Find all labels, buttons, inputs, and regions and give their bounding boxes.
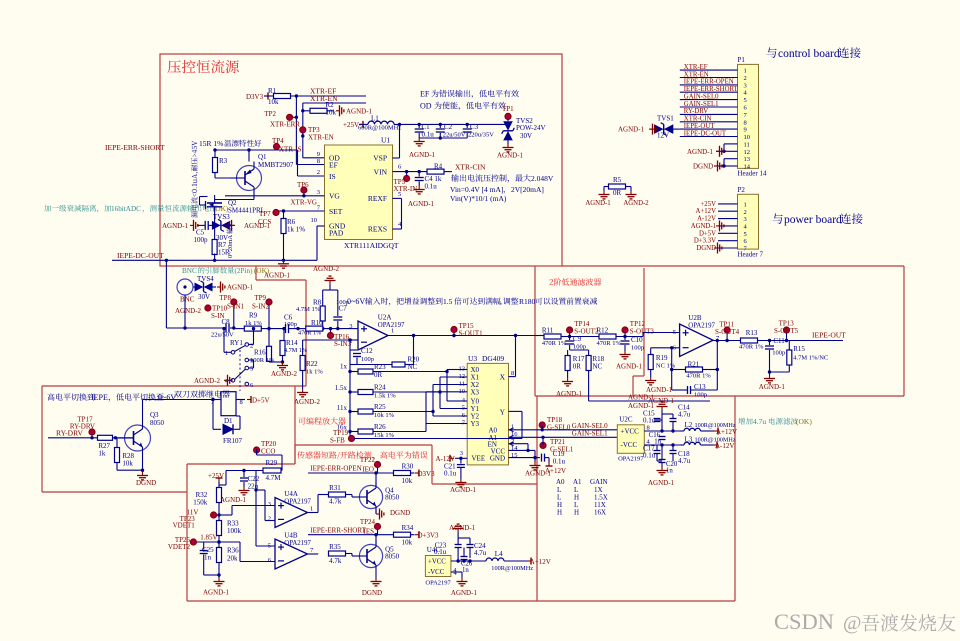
svg-text:NC: NC <box>593 363 603 371</box>
connector BNC <box>177 279 195 328</box>
test point TP16 S-IN3 <box>327 329 351 348</box>
wire U2A minus input <box>303 338 358 355</box>
svg-text:PAD: PAD <box>329 229 344 238</box>
svg-text:3: 3 <box>250 358 253 365</box>
note with control board <box>767 47 861 60</box>
svg-text:10k: 10k <box>326 109 337 117</box>
svg-text:Y: Y <box>500 408 506 417</box>
svg-text:1n: 1n <box>204 554 212 562</box>
test point TP18 G-SEL0 <box>539 416 571 432</box>
capacitor C5 <box>194 221 215 244</box>
svg-text:10k: 10k <box>122 460 133 468</box>
svg-text:DGND: DGND <box>362 589 382 597</box>
svg-text:X3: X3 <box>471 388 480 396</box>
wire U4B inputs <box>217 540 275 561</box>
svg-text:RY-DRV: RY-DRV <box>684 108 708 115</box>
svg-text:3: 3 <box>460 450 463 457</box>
svg-text:DGND: DGND <box>693 163 713 171</box>
svg-text:0.1u: 0.1u <box>643 417 656 425</box>
svg-text:1k 1%: 1k 1% <box>306 369 323 376</box>
svg-text:470R 1%: 470R 1% <box>686 373 711 380</box>
wire net XTR-EN to P1 pin 2 <box>680 71 738 78</box>
svg-text:R19: R19 <box>656 354 668 362</box>
wire net IEPE-DC-OUT to P1 pin 10 <box>680 130 738 137</box>
power ground AGND-1 above U4C caps <box>449 524 476 532</box>
capacitor C17 <box>643 445 661 462</box>
svg-text:A+12V: A+12V <box>530 558 551 566</box>
wire cap commons <box>419 136 467 139</box>
wire Q4 collector IEPE-ERR-OPEN <box>308 465 394 486</box>
wire U2B plus input <box>643 333 680 337</box>
svg-text:AGND-2: AGND-2 <box>175 307 202 315</box>
svg-text:VEE: VEE <box>472 454 486 462</box>
svg-text:10k 1%: 10k 1% <box>374 412 395 419</box>
inductor L4 <box>486 550 551 572</box>
svg-text:A+12V: A+12V <box>716 428 737 436</box>
capacitor C3 <box>463 123 495 139</box>
svg-text:0R: 0R <box>573 363 582 371</box>
svg-text:TP2: TP2 <box>264 110 276 118</box>
svg-text:9: 9 <box>317 151 320 158</box>
svg-text:8050: 8050 <box>385 494 400 502</box>
svg-text:GAIN-SEL1: GAIN-SEL1 <box>684 101 719 108</box>
svg-text:12V: 12V <box>657 132 669 140</box>
note double pole relay <box>174 390 230 397</box>
watermark handle <box>843 612 956 634</box>
svg-text:R23: R23 <box>374 363 386 371</box>
svg-text:100p: 100p <box>284 321 297 328</box>
svg-text:R24: R24 <box>374 384 386 392</box>
region box: 2nd-order low pass filter <box>535 266 904 396</box>
wire A0 GAIN-SEL0 <box>509 422 621 431</box>
svg-text:XTR-IN: XTR-IN <box>394 185 418 193</box>
svg-text:16X: 16X <box>594 509 606 517</box>
wire U4C minus rail <box>451 572 462 578</box>
svg-text:12: 12 <box>744 149 751 156</box>
svg-text:VDET1: VDET1 <box>173 522 196 530</box>
inductor L3 <box>680 436 736 451</box>
wire XTR-EF <box>291 87 367 98</box>
svg-text:IEPE-OUT: IEPE-OUT <box>684 123 715 130</box>
wire Q5 collector IEPE-ERR-SHORT <box>308 526 394 544</box>
svg-text:8050: 8050 <box>385 553 400 561</box>
svg-text:10k: 10k <box>268 98 279 106</box>
svg-text:RY1: RY1 <box>230 339 243 347</box>
svg-text:3: 3 <box>268 501 271 508</box>
wire CCO R29 net <box>257 449 282 471</box>
svg-text:20k: 20k <box>227 555 238 563</box>
test point TP23 VDET1 <box>173 509 221 530</box>
wire OD vertical <box>301 103 324 158</box>
wire Q3 collector to coil <box>143 399 214 401</box>
svg-text:A1: A1 <box>573 478 582 486</box>
resistor R29 <box>226 459 281 482</box>
svg-text:OD: OD <box>420 102 432 111</box>
svg-text:R1: R1 <box>268 87 277 95</box>
svg-text:R3: R3 <box>219 157 228 165</box>
svg-text:AGND-1: AGND-1 <box>585 200 610 207</box>
note 0-20mA vertical <box>226 222 234 258</box>
power ground AGND-1 under R17 <box>556 378 583 398</box>
svg-text:XTR-VG: XTR-VG <box>291 199 317 207</box>
svg-text:S-IN2: S-IN2 <box>252 303 270 311</box>
svg-text:DGND: DGND <box>696 245 716 252</box>
capacitor C19 <box>542 450 567 475</box>
svg-text:OPA2197: OPA2197 <box>425 580 451 587</box>
power ground AGND-2 at BNC <box>175 307 202 315</box>
svg-text:10: 10 <box>311 217 318 224</box>
svg-text:R4: R4 <box>434 163 443 171</box>
capacitor C24 <box>458 538 487 558</box>
svg-text:AGND-1: AGND-1 <box>646 386 673 394</box>
svg-text:XTR-EF: XTR-EF <box>684 64 708 71</box>
power ground AGND-1 at C19 <box>525 458 552 478</box>
svg-text:R21: R21 <box>688 361 700 369</box>
svg-text:0R: 0R <box>374 371 383 379</box>
svg-text:16bitADC: 16bitADC <box>111 205 141 213</box>
svg-text:REXF: REXF <box>368 194 387 203</box>
power ground AGND-1 at R2 <box>336 105 373 116</box>
svg-text:15R 1%: 15R 1% <box>199 139 223 148</box>
test point TP12 S-OUT3 <box>622 320 655 338</box>
resistor R2 <box>303 101 337 117</box>
wire IEPE-DC-OUT <box>112 251 317 262</box>
svg-text:AGND-1: AGND-1 <box>525 470 552 478</box>
resistor R14 <box>280 327 307 364</box>
capacitor C10 <box>621 336 645 352</box>
svg-text:R13: R13 <box>746 329 758 337</box>
power ground AGND-1 under C10 <box>616 351 643 371</box>
svg-text:C12: C12 <box>361 347 373 355</box>
connector P1 Header 14 <box>738 56 767 178</box>
svg-text:AGND-1: AGND-1 <box>759 383 786 391</box>
svg-text:C8: C8 <box>222 318 231 326</box>
wire net GAIN-SEL1 to P1 pin 6 <box>680 101 738 108</box>
mosfet Q2 SM4441PRL <box>200 195 265 221</box>
svg-text:U4A: U4A <box>284 490 298 498</box>
svg-text:U2A: U2A <box>378 314 392 322</box>
resistor R36 <box>204 542 239 577</box>
resistor R20 <box>357 356 420 372</box>
note temperature 15R <box>199 139 261 148</box>
capacitor C14 <box>662 404 691 432</box>
svg-text:R22: R22 <box>306 360 318 368</box>
capacitor C9 <box>565 335 586 351</box>
svg-text:100p: 100p <box>772 350 785 357</box>
svg-text:14: 14 <box>511 445 518 452</box>
svg-text:R26: R26 <box>374 423 386 431</box>
capacitor C11 <box>765 337 785 372</box>
power ground AGND-1 under U2C caps <box>648 467 675 487</box>
svg-text:AGND-1: AGND-1 <box>687 148 714 156</box>
svg-text:AGND-1: AGND-1 <box>227 284 254 292</box>
svg-text:C3: C3 <box>470 123 479 131</box>
svg-text:150k: 150k <box>193 499 208 507</box>
signal ground under R6 <box>278 260 289 268</box>
svg-text:TP22: TP22 <box>360 456 376 464</box>
svg-text:TP9: TP9 <box>254 294 266 302</box>
svg-text:H: H <box>557 509 562 517</box>
power ground AGND-1 at P2 pin4 <box>716 220 724 231</box>
svg-text:A0: A0 <box>556 478 565 486</box>
resistor R21 <box>672 339 719 390</box>
svg-text:470R 1%: 470R 1% <box>739 344 764 351</box>
resistor R4 <box>393 162 486 174</box>
note high level switch <box>47 393 176 402</box>
svg-text:1: 1 <box>310 506 313 513</box>
svg-text:S-FB: S-FB <box>330 437 345 445</box>
ic U2C OPA2197 power <box>617 416 650 463</box>
svg-text:R9: R9 <box>249 312 258 320</box>
power ground AGND-1 under C1-C3 <box>409 138 436 159</box>
svg-text:0.1u: 0.1u <box>444 470 457 478</box>
power ground DGND under Q5 <box>362 572 382 598</box>
wire U3 X output <box>509 336 516 377</box>
region divider lines (middle horizontal) <box>256 266 904 386</box>
test point TP24 IES <box>360 518 381 536</box>
wire net XTR-CIN to P1 pin 8 <box>680 116 738 123</box>
svg-text:DG409: DG409 <box>482 354 504 363</box>
wire P1 pins 11-12 to AGND-1 <box>716 144 738 153</box>
svg-text:L1: L1 <box>371 115 379 123</box>
svg-text:AGND-1: AGND-1 <box>556 390 583 398</box>
wire CCO to comparators <box>254 470 257 546</box>
svg-text:AGND-1: AGND-1 <box>616 363 643 371</box>
capacitor C1 <box>415 123 435 139</box>
svg-text:1.85V: 1.85V <box>200 534 217 542</box>
svg-text:BNC: BNC <box>182 267 197 275</box>
resistor R32 <box>193 488 221 516</box>
svg-text:0.1u: 0.1u <box>425 183 438 191</box>
svg-text:CCO: CCO <box>261 448 275 456</box>
svg-text:MMBT2907: MMBT2907 <box>258 161 294 169</box>
svg-text:2V[20mA]: 2V[20mA] <box>511 185 544 194</box>
svg-text:2: 2 <box>268 516 271 523</box>
power ground AGND-1 under C21 <box>450 479 477 494</box>
resistor R35 <box>308 543 355 565</box>
svg-text:2: 2 <box>317 169 320 176</box>
note attenuation isolation ADC <box>44 205 229 213</box>
resistor R30 <box>394 463 436 486</box>
svg-text:U2B: U2B <box>688 314 702 322</box>
ic U1 XTR111AIDGQT <box>311 136 403 251</box>
svg-text:0R: 0R <box>613 189 622 197</box>
svg-text:IEPE-DC-OUT: IEPE-DC-OUT <box>117 251 164 260</box>
svg-text:FR107: FR107 <box>223 437 243 445</box>
svg-text:NC 1%: NC 1% <box>656 363 676 370</box>
svg-text:AGND-2: AGND-2 <box>294 398 321 406</box>
svg-text:Vin(V)*10/1 (mA): Vin(V)*10/1 (mA) <box>450 194 507 203</box>
svg-text:2: 2 <box>250 343 253 350</box>
note BNC pin count <box>182 267 270 275</box>
resistor R22 <box>300 340 323 389</box>
resistor R34 <box>394 524 440 547</box>
svg-text:R11: R11 <box>542 327 554 335</box>
test point TP20 CCO <box>254 440 277 456</box>
wire main input <box>166 260 235 329</box>
svg-text:AGND-1: AGND-1 <box>497 152 524 160</box>
svg-text:1k: 1k <box>98 450 106 458</box>
svg-text:100R@100MHz: 100R@100MHz <box>491 565 533 572</box>
svg-text:1: 1 <box>391 328 394 335</box>
power ground AGND-1 under C22 <box>220 487 250 504</box>
svg-text:Vin=0.4V [4 mA]: Vin=0.4V [4 mA] <box>450 185 503 194</box>
wire U2B minus input <box>670 346 680 390</box>
svg-text:C10: C10 <box>631 336 643 344</box>
note programmable amplifier <box>298 417 345 424</box>
transistor Q1 MMBT2907 <box>215 150 294 200</box>
svg-text:1k 1%: 1k 1% <box>287 226 305 234</box>
svg-text:100p: 100p <box>361 356 374 363</box>
svg-text:2.048V: 2.048V <box>531 174 554 183</box>
svg-text:0~6V: 0~6V <box>158 393 176 402</box>
svg-text:D+5V: D+5V <box>699 230 716 237</box>
svg-text:OPA2197: OPA2197 <box>284 540 311 547</box>
note OD enable <box>420 102 506 111</box>
resistor R8 <box>296 290 325 330</box>
power ground AGND-1 at TVS4 <box>217 282 254 293</box>
svg-text:XTR111AIDGQT: XTR111AIDGQT <box>344 241 399 250</box>
svg-text:R35: R35 <box>329 543 341 551</box>
svg-text:G-SEL0: G-SEL0 <box>547 424 571 432</box>
tvs TVS4 <box>193 275 216 301</box>
svg-text:0.1u: 0.1u <box>422 131 435 139</box>
capacitor C13 <box>672 383 718 399</box>
svg-text:IEPE-ERR-SHORT: IEPE-ERR-SHORT <box>684 86 739 93</box>
svg-text:4.7u: 4.7u <box>678 457 691 465</box>
test point TP19 S-FB <box>330 429 355 445</box>
wire net RY-DRV to P1 pin 7 <box>680 108 738 115</box>
svg-text:XTR-CIN: XTR-CIN <box>455 162 486 171</box>
wire EN VCC tie <box>509 444 541 460</box>
svg-text:XTR-EN: XTR-EN <box>308 134 334 142</box>
svg-text:S-OUT3: S-OUT3 <box>630 328 655 336</box>
power ground AGND-1 under C4 <box>408 186 435 208</box>
wire XTR-IS net <box>213 148 324 176</box>
svg-text:R180: R180 <box>519 297 536 306</box>
svg-text:L2: L2 <box>685 421 693 429</box>
svg-text:220u/35V: 220u/35V <box>468 132 494 139</box>
svg-text:10k: 10k <box>402 539 413 547</box>
svg-text:8050: 8050 <box>150 419 165 427</box>
wire A1 GAIN-SEL1 <box>509 430 621 439</box>
svg-text:100p: 100p <box>631 345 644 352</box>
capacitor C4 <box>415 172 442 191</box>
resistor R13 <box>739 329 764 351</box>
power +25V sensor divider <box>208 471 226 489</box>
svg-text:1: 1 <box>744 201 747 208</box>
svg-text:power board: power board <box>784 214 842 226</box>
resistor R7 <box>212 224 230 261</box>
svg-text:TP6: TP6 <box>297 181 309 189</box>
test point TP10 S-IN <box>205 305 228 321</box>
svg-text:L4: L4 <box>495 550 503 558</box>
svg-text:GAIN: GAIN <box>590 478 608 486</box>
svg-text:+25V: +25V <box>343 121 359 129</box>
svg-text:470R 1%: 470R 1% <box>542 340 567 347</box>
svg-text:POW-24V: POW-24V <box>516 124 546 132</box>
svg-text:X: X <box>500 373 506 382</box>
test point TP9 S-IN2 <box>252 294 272 329</box>
resistor R26 15k <box>337 423 427 439</box>
capacitor C21 <box>444 458 465 479</box>
wire GND pin down <box>317 226 325 260</box>
svg-text:GAIN-SEL1: GAIN-SEL1 <box>572 430 608 438</box>
svg-text:2: 2 <box>744 75 747 82</box>
svg-text:1.5: 1.5 <box>443 297 453 306</box>
inductor L1 <box>343 115 401 132</box>
diode D1 FR107 <box>213 407 243 445</box>
svg-text:100p: 100p <box>194 236 209 244</box>
resistor R16 <box>250 329 283 364</box>
svg-text:9: 9 <box>744 127 747 134</box>
test point TP7 CCS <box>258 209 325 226</box>
note 2nd order low pass filter <box>550 278 602 285</box>
wire net IEPE-OUT to P1 pin 9 <box>680 123 738 130</box>
svg-text:(2Pin): (2Pin) <box>235 267 254 275</box>
svg-text:4.7u: 4.7u <box>474 549 487 557</box>
capacitor C12 <box>350 347 374 372</box>
svg-text:R25: R25 <box>374 403 386 411</box>
capacitor C15 <box>643 410 662 425</box>
svg-text:TP4: TP4 <box>272 137 284 145</box>
svg-text:11x: 11x <box>337 404 348 412</box>
power ground AGND-2 under R22 <box>294 389 321 406</box>
svg-text:8: 8 <box>511 370 514 377</box>
resistor R31 <box>308 484 355 513</box>
svg-text:VIN: VIN <box>374 168 388 177</box>
gain ladder rail <box>348 370 351 439</box>
svg-text:AGND-1: AGND-1 <box>618 126 645 134</box>
svg-text:R34: R34 <box>402 524 414 532</box>
resistor R19 <box>648 348 676 377</box>
ic U4C OPA2197 power <box>425 546 457 587</box>
svg-text:+VCC: +VCC <box>428 559 446 566</box>
svg-text:,: , <box>500 297 502 306</box>
resistor R17 <box>565 350 585 378</box>
test point TP17 RY-DRV <box>70 416 95 438</box>
resistor R9 <box>236 312 285 332</box>
svg-text:XTR-ERR: XTR-ERR <box>270 121 300 129</box>
svg-text:0~20mA: 0~20mA <box>227 235 234 258</box>
wire XTR-EN <box>303 94 366 103</box>
svg-text:OPA2197: OPA2197 <box>688 323 715 330</box>
svg-text:30V: 30V <box>520 132 532 140</box>
svg-text:AGND-1: AGND-1 <box>203 589 230 597</box>
wire VEE A-12V <box>436 455 468 463</box>
relay RY1 contacts <box>225 339 254 391</box>
svg-text:VSP: VSP <box>373 154 387 163</box>
svg-text:-VCC: -VCC <box>621 441 638 449</box>
resistor R5 <box>604 176 631 197</box>
ic U3 DG409 <box>459 354 519 465</box>
power ground AGND-1 left of C5 <box>162 220 198 231</box>
svg-text:AGND-1: AGND-1 <box>648 479 675 487</box>
svg-text:U3: U3 <box>468 354 477 363</box>
svg-text:S-OUT4: S-OUT4 <box>715 328 740 336</box>
svg-text:AGND-1: AGND-1 <box>691 223 716 230</box>
power ground AGND-1 at TVS1 <box>618 124 657 135</box>
svg-text:Header 7: Header 7 <box>738 251 764 259</box>
note add 4.7u power filter <box>738 417 812 426</box>
svg-text:AGND-1: AGND-1 <box>409 151 436 159</box>
test point TP6 XTR-VG <box>225 181 325 207</box>
relay coil D1 box <box>211 392 243 425</box>
wire coil pin8 to D+5V <box>236 396 270 405</box>
power ground AGND-1 under U4C <box>451 578 478 597</box>
svg-text:OPA2197: OPA2197 <box>284 499 311 506</box>
power ground AGND-1 at R5 <box>585 191 610 207</box>
